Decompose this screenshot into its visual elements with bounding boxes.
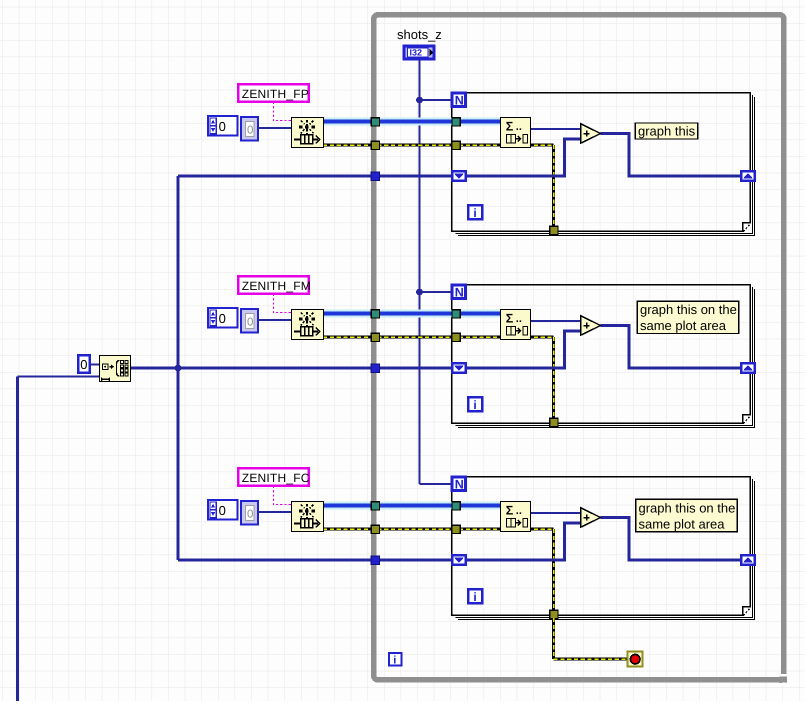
wire control to acquire VI row3: [257, 511, 292, 513]
shift register right (up) loop 2: [741, 363, 755, 373]
svg-text:i: i: [393, 654, 396, 666]
numeric constant 0 (element value): [78, 355, 89, 372]
numeric control pair row2: [208, 308, 258, 333]
tunnel error on while border row3: [371, 525, 379, 533]
wire thick data array row3: [323, 502, 500, 510]
iteration terminal i of loop 1: [468, 205, 482, 220]
tunnel rail on while border row3: [371, 556, 379, 564]
wire dimension-size feed horizontal: [18, 375, 101, 377]
label ZENITH_FC leader wire: [274, 486, 292, 505]
tunnel error on for-loop 3: [452, 525, 460, 533]
tunnel error on for-loop 1: [452, 141, 460, 149]
wire constant to initialize-array: [90, 364, 100, 366]
label shots_z: [397, 27, 442, 42]
label graph this on the same plot area (3): [636, 499, 738, 532]
numeric control pair row1: [208, 116, 258, 141]
tunnel data on for-loop 2: [452, 310, 460, 318]
for loop 2 frame: [452, 285, 755, 428]
node junction J3 rail branch: [175, 365, 182, 372]
wire error cluster row3 horizontal: [323, 527, 554, 530]
wire shots_z to N3: [420, 483, 454, 485]
conditional stop terminal: [628, 652, 643, 667]
wire add output to shift register row3: [601, 518, 742, 561]
svg-text:0: 0: [80, 357, 87, 372]
wire mean output to add input row1: [531, 128, 581, 130]
loop count terminal N3: [452, 477, 466, 491]
node junction J2 on shots_z trunk: [416, 289, 423, 296]
tunnel data on for-loop 3: [452, 502, 460, 510]
tunnel data on for-loop 1: [452, 118, 460, 126]
svg-text:graph this on the: graph this on the: [639, 501, 736, 516]
wire add output to shift register row2: [601, 326, 742, 369]
function add row2: [581, 316, 601, 335]
array rail wire row3: [178, 559, 452, 562]
wire shots_z to N1: [420, 99, 454, 101]
loop count terminal N1: [452, 93, 466, 107]
wire thick data array row2: [323, 310, 500, 318]
wire error cluster row2 drop to bottom tunnel: [552, 337, 555, 422]
shift register right (up) loop 1: [741, 171, 755, 181]
shift register right (up) loop 3: [741, 555, 755, 565]
iteration terminal i of loop 3: [468, 589, 482, 604]
for loop 3 frame: [452, 477, 755, 620]
wire rail inside loop 1 to add input: [466, 139, 581, 176]
tunnel error bottom of for-loop 2: [550, 418, 558, 426]
svg-text:ZENITH_FC: ZENITH_FC: [242, 471, 310, 485]
tunnel rail on while border row1: [371, 172, 379, 180]
svg-text:ZENITH_FP: ZENITH_FP: [242, 87, 309, 101]
svg-text:graph this: graph this: [638, 123, 696, 138]
wire rail inside loop 3 to add input: [466, 523, 581, 560]
while loop frame W1: [374, 15, 787, 685]
svg-text:graph this on the: graph this on the: [640, 302, 737, 317]
loop count terminal N2: [452, 285, 466, 299]
function mean (sigma) row1: [501, 118, 531, 148]
wire mean output to add input row3: [531, 512, 581, 514]
shift register left (down) loop 3: [452, 555, 466, 565]
svg-text:shots_z: shots_z: [397, 27, 442, 42]
subVI acquire (star) row3: [292, 502, 324, 532]
label graph this on the same plot area (2): [637, 301, 739, 333]
wire thick data array row1: [323, 118, 500, 126]
wire error cluster row1 horizontal: [323, 143, 554, 146]
label ZENITH_FC: [238, 468, 310, 486]
shift register left (down) loop 2: [452, 363, 466, 373]
tunnel error bottom of for-loop 3: [550, 610, 558, 618]
label ZENITH_FM: [238, 276, 311, 294]
tunnel error on while border row1: [371, 141, 379, 149]
shift register left (down) loop 1: [452, 171, 466, 181]
control shots_z I32 terminal: [404, 46, 434, 59]
tunnel data on while border row1: [371, 118, 379, 126]
wire control to acquire VI row2: [257, 319, 292, 321]
wire rail branch vertical x178: [177, 176, 180, 560]
iteration terminal i of loop 2: [468, 397, 482, 412]
tunnel data on while border row3: [371, 502, 379, 510]
svg-text:same plot area: same plot area: [639, 517, 726, 532]
wire dimension-size feed vertical at left edge: [16, 377, 19, 702]
label ZENITH_FM leader wire: [274, 294, 292, 313]
wire mean output to add input row2: [531, 320, 581, 322]
tunnel error on while border row2: [371, 333, 379, 341]
numeric control pair row3: [208, 500, 258, 524]
function add row3: [581, 508, 601, 527]
array rail wire (initialize-array output) row2: [131, 367, 452, 370]
function mean (sigma) row2: [501, 310, 531, 340]
wire add output to shift register row1: [601, 134, 742, 177]
svg-text:same plot area: same plot area: [640, 318, 727, 333]
iteration terminal i of while loop: [389, 653, 402, 666]
function initialize-array U0: [100, 356, 131, 382]
tunnel error on for-loop 2: [452, 333, 460, 341]
wire error cluster row3 drop to bottom tunnel: [552, 529, 555, 614]
label graph this: [635, 123, 698, 139]
wire control to acquire VI row1: [257, 127, 292, 129]
tunnel data on while border row2: [371, 310, 379, 318]
wire rail inside loop 2 to add input: [466, 331, 581, 368]
node junction J1 on shots_z trunk: [416, 97, 423, 104]
svg-text:I32: I32: [410, 47, 423, 57]
function add row1: [581, 124, 601, 143]
wire shots_z vertical trunk: [419, 59, 421, 484]
function mean (sigma) row3: [501, 502, 531, 532]
label ZENITH_FP leader wire: [274, 102, 292, 121]
label ZENITH_FP: [238, 84, 309, 102]
subVI acquire (star) row1: [292, 118, 324, 148]
tunnel error bottom of for-loop 1: [550, 226, 558, 234]
for loop 1 frame: [452, 93, 755, 236]
wire shots_z to N2: [420, 291, 454, 293]
wire error cluster row2 horizontal: [323, 335, 554, 338]
wire error cluster to conditional terminal: [554, 618, 628, 659]
svg-text:ZENITH_FM: ZENITH_FM: [242, 279, 311, 293]
array rail wire row1: [178, 175, 452, 178]
tunnel rail on while border row2: [371, 364, 379, 372]
subVI acquire (star) row2: [292, 310, 324, 340]
wire error cluster row1 drop to bottom tunnel: [552, 145, 555, 230]
